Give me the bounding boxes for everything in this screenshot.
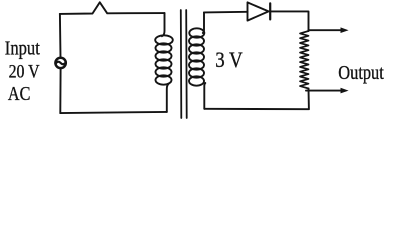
svg-text:AC: AC — [8, 84, 31, 105]
svg-text:3 V: 3 V — [215, 47, 243, 72]
svg-text:Output: Output — [338, 63, 384, 84]
svg-text:Input: Input — [5, 37, 40, 59]
svg-text:20 V: 20 V — [9, 61, 40, 82]
